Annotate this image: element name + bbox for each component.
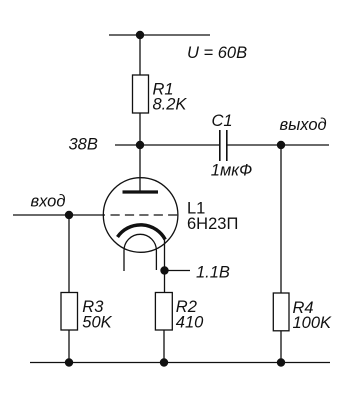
svg-text:50K: 50K [82,314,112,332]
svg-text:38В: 38В [69,135,98,153]
wire bottom ground rail [30,362,330,364]
tube envelope L1 [103,178,178,253]
svg-text:410: 410 [176,314,204,332]
junction dot output node [277,141,285,149]
junction dot R2 ground [160,358,168,366]
wire R3 bottom lead [68,330,70,363]
svg-text:6Н23П: 6Н23П [187,215,238,233]
svg-text:1мкФ: 1мкФ [211,162,252,180]
svg-text:C1: C1 [212,112,233,130]
svg-text:U = 60В: U = 60В [187,44,247,62]
wire input node to R3 [68,215,70,293]
wire 38B node to capacitor [115,144,220,146]
resistor R2 [155,293,172,331]
wire cathode node stub [165,270,191,272]
wire input to grid [13,214,105,216]
wire R4 bottom lead [280,331,282,363]
anode plate bar [123,190,159,193]
svg-text:вход: вход [31,193,66,211]
resistor R4 [273,293,289,331]
capacitor C1 [219,130,221,161]
junction dot input node [65,211,73,219]
grid dashed line [111,214,178,216]
resistor R3 [61,293,78,331]
junction dot R3 ground [65,358,73,366]
svg-text:100K: 100K [293,314,333,332]
wire output node to R4 [280,145,282,293]
wire capacitor to output [227,144,329,146]
svg-text:выход: выход [280,116,327,134]
junction dot R4 ground [277,358,285,366]
wire R1 bottom lead to anode [139,113,141,192]
resistor R1 [133,75,149,113]
wire cathode lead [164,238,166,293]
wire R2 bottom lead [163,330,165,363]
wire R1 top lead [139,35,141,75]
heater filament [124,234,156,271]
svg-text:8.2K: 8.2K [153,96,188,114]
junction dot cathode node [160,266,168,274]
wire top supply rail [109,34,210,36]
junction dot 38B node [136,141,144,149]
svg-text:1.1В: 1.1В [196,264,230,282]
junction dot top rail [136,31,144,39]
cathode arc [118,225,166,240]
